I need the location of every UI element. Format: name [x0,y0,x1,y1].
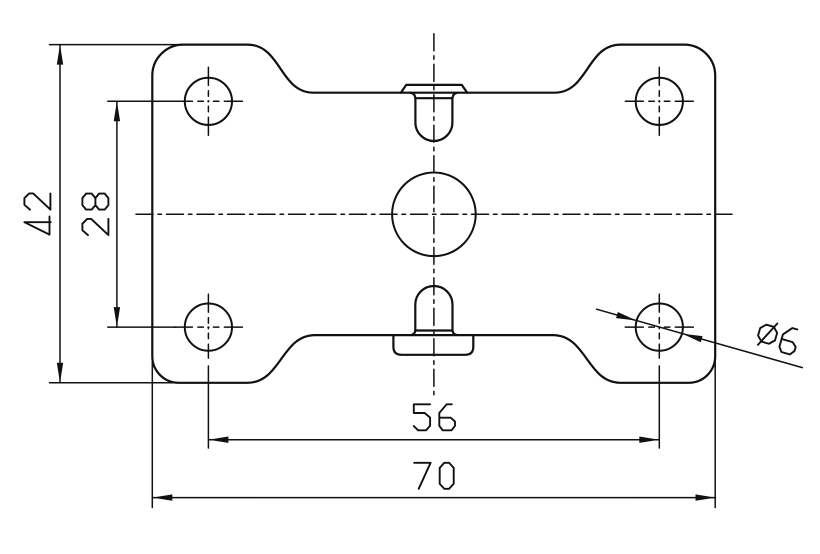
centerline cross hole top-left [174,67,242,135]
arrow 56 right [639,437,659,443]
leader arrow left [616,312,637,324]
extension lines dim 28 [108,101,176,327]
top tab flange [401,85,467,93]
horizontal centerline [136,213,732,215]
dimension line 28 [116,101,118,327]
hole top-left [185,78,232,125]
centerline cross hole bottom-left [174,294,242,358]
bottom slot [393,335,473,355]
label 42 [24,193,50,234]
extension lines dim 42 [50,45,197,383]
top tab body [410,93,458,141]
centerline cross hole bottom-right [625,294,693,358]
leader arrow right [682,331,703,343]
arrow 56 left [208,437,228,443]
hole bottom-left [185,304,232,351]
label 28 [82,194,108,236]
extension lines dim 56 [208,366,659,448]
arrow 70 right [696,494,716,500]
label dia 6 [755,319,800,355]
hole bottom-right [636,304,683,351]
hole top-right [636,78,683,125]
leader line dia6 [597,309,803,367]
arrow 28 top [114,101,120,121]
vertical centerline [433,34,435,395]
centerline cross hole top-right [625,67,693,135]
label 70 [414,463,454,489]
center hole [392,173,476,257]
arrow 42 top [57,45,63,65]
dimension line 56 [208,439,659,441]
mounting plate outline [152,45,715,383]
dimension line 42 [59,45,61,383]
arrow 28 bottom [114,307,120,327]
arrow 42 bottom [57,363,63,383]
extension lines dim 70 [152,350,715,508]
label 56 [414,404,455,430]
dimension line 70 [152,497,715,499]
arrow 70 left [152,494,172,500]
bottom tab body [411,286,457,335]
